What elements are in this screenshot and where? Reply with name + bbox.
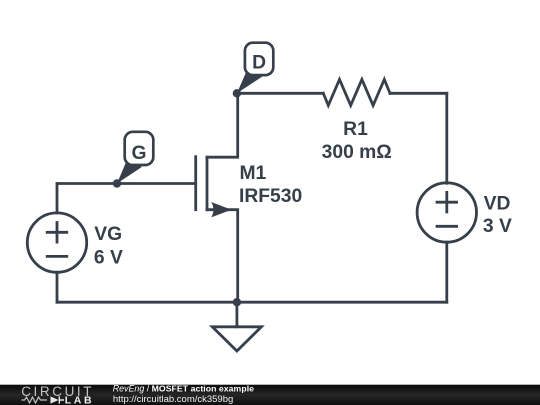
gate bar xyxy=(194,157,197,210)
svg-text:D: D xyxy=(252,52,266,73)
svg-text:G: G xyxy=(132,143,147,164)
svg-text:300 mΩ: 300 mΩ xyxy=(322,142,392,163)
wire top rail left (node D to resistor) xyxy=(237,92,323,95)
wire top rail right (resistor to right corner) xyxy=(390,92,447,95)
svg-text:LAB: LAB xyxy=(65,394,94,405)
svg-text:RevEng / MOSFET action example: RevEng / MOSFET action example xyxy=(113,384,254,394)
logo doodle resistor xyxy=(22,397,48,403)
voltage source VG xyxy=(27,213,123,272)
footer bar xyxy=(0,385,540,405)
resistor R1 xyxy=(322,79,392,162)
junction dot node G xyxy=(113,179,121,187)
svg-text:3 V: 3 V xyxy=(483,216,512,237)
drain lead xyxy=(207,93,238,157)
source arrow xyxy=(211,202,231,217)
svg-text:R1: R1 xyxy=(343,119,368,140)
svg-text:VG: VG xyxy=(94,224,122,245)
svg-text:M1: M1 xyxy=(240,163,267,184)
node flag D xyxy=(237,43,273,94)
wire VG bottom stub xyxy=(56,272,59,302)
logo doodle diode xyxy=(51,396,59,403)
svg-text:IRF530: IRF530 xyxy=(239,186,302,207)
wire gate xyxy=(57,182,196,185)
source lead xyxy=(207,210,238,303)
wire bottom rail xyxy=(57,301,447,304)
ground xyxy=(212,302,261,351)
node flag G xyxy=(117,132,153,184)
channel bar xyxy=(206,157,209,210)
svg-text:http://circuitlab.com/ck359bg: http://circuitlab.com/ck359bg xyxy=(113,394,233,405)
svg-text:VD: VD xyxy=(484,193,511,214)
junction dot bottom node xyxy=(233,298,241,306)
voltage source VD xyxy=(417,183,512,242)
junction dot node D xyxy=(233,89,241,97)
wire right rail down to VD xyxy=(445,93,448,183)
transistor M1 xyxy=(196,93,303,302)
svg-text:6 V: 6 V xyxy=(94,247,123,268)
wire VD bottom stub xyxy=(445,242,448,302)
wire VG top stub xyxy=(56,184,59,214)
